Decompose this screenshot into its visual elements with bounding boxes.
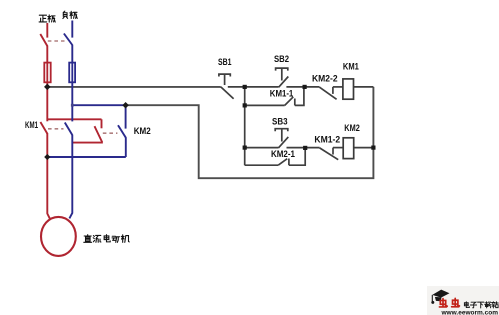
svg-text:KM2: KM2 <box>134 126 151 136</box>
svg-text:SB1: SB1 <box>218 57 232 67</box>
svg-text:www.eeworm.com: www.eeworm.com <box>440 310 498 315</box>
svg-text:KM1: KM1 <box>25 120 38 130</box>
svg-text:KM2: KM2 <box>344 123 360 133</box>
svg-text:SB3: SB3 <box>272 117 288 127</box>
svg-text:KM1: KM1 <box>343 61 359 71</box>
svg-text:KM2-2: KM2-2 <box>312 73 338 83</box>
svg-text:KM1-1: KM1-1 <box>270 88 294 98</box>
svg-text:SB2: SB2 <box>274 54 289 64</box>
svg-text:KM1-2: KM1-2 <box>314 134 340 144</box>
svg-text:KM2-1: KM2-1 <box>271 149 295 159</box>
